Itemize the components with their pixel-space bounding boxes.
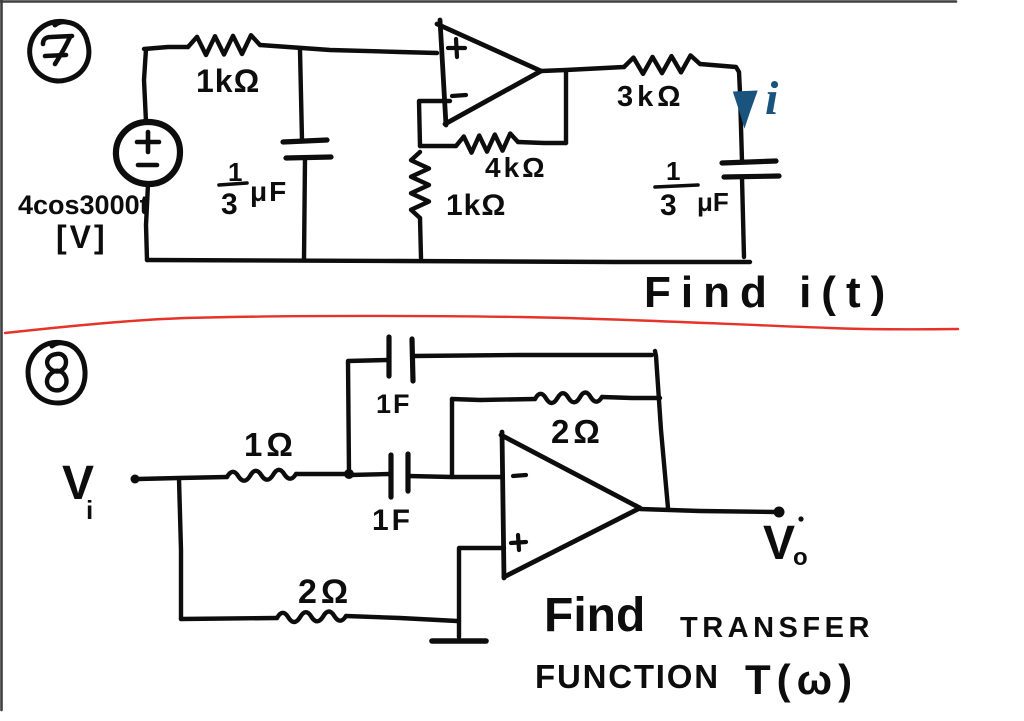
svg-text:V: V — [763, 517, 795, 570]
svg-text:i: i — [86, 495, 93, 525]
svg-text:FUNCTION: FUNCTION — [535, 658, 720, 695]
svg-text:μF: μF — [250, 176, 288, 207]
svg-text:4kΩ: 4kΩ — [485, 152, 548, 183]
svg-text:1: 1 — [666, 156, 680, 186]
svg-text:TRANSFER: TRANSFER — [680, 612, 874, 644]
svg-text:1kΩ: 1kΩ — [196, 63, 260, 99]
svg-text:Find i(t): Find i(t) — [644, 268, 895, 317]
svg-text:1Ω: 1Ω — [244, 426, 297, 463]
svg-text:3: 3 — [660, 189, 677, 222]
svg-text:o: o — [793, 544, 808, 571]
svg-text:1F: 1F — [372, 504, 413, 537]
svg-text:2Ω: 2Ω — [551, 413, 604, 450]
svg-text:i: i — [765, 72, 779, 125]
svg-text:T(ω): T(ω) — [745, 656, 858, 703]
svg-text:4cos3000t: 4cos3000t — [18, 190, 149, 220]
svg-text:1kΩ: 1kΩ — [446, 189, 506, 222]
svg-text:3kΩ: 3kΩ — [617, 81, 685, 113]
svg-text:Find: Find — [544, 589, 645, 642]
svg-text:3: 3 — [221, 188, 238, 221]
svg-text:2Ω: 2Ω — [298, 573, 352, 611]
svg-text:1F: 1F — [376, 389, 412, 419]
svg-text:μF: μF — [697, 187, 729, 217]
svg-text:[V]: [V] — [56, 219, 108, 255]
